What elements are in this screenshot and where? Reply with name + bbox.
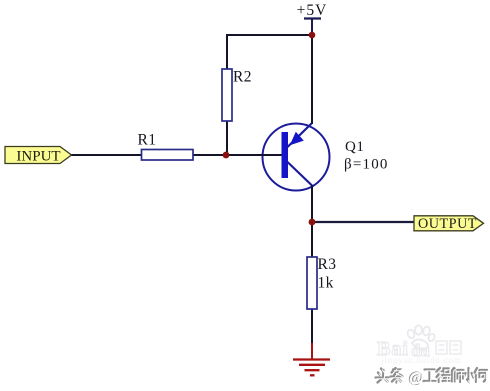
wire R1 to base node <box>193 154 226 156</box>
svg-text:1k: 1k <box>318 275 334 292</box>
resistor R3 <box>307 257 317 309</box>
wire collector <box>311 35 313 124</box>
char shi <box>453 369 465 383</box>
wire R3 bottom leg <box>311 309 313 345</box>
char he <box>476 369 489 383</box>
watermark baidu text <box>377 338 430 360</box>
resistor R2 <box>222 69 232 121</box>
svg-text:jingyan.baidu.com: jingyan.baidu.com <box>380 355 462 365</box>
wire base node to transistor base <box>226 154 282 156</box>
watermark toutiao text (hand-drawn CJK strokes) <box>376 368 488 383</box>
svg-text:OUTPUT: OUTPUT <box>418 216 477 232</box>
watermark jingyan characters <box>436 341 461 354</box>
char xiao <box>465 369 475 382</box>
junction output node <box>309 219 316 226</box>
transistor Q1 arrow <box>290 132 304 145</box>
char tiao <box>392 369 404 384</box>
transistor Q1 collector stroke <box>288 124 312 148</box>
ground symbol bars <box>293 360 330 376</box>
char he <box>475 368 488 382</box>
svg-text:Q1: Q1 <box>345 139 364 155</box>
wire base inside circle <box>262 154 282 156</box>
svg-text:β=100: β=100 <box>344 157 389 173</box>
char cheng <box>437 369 451 383</box>
watermark baidu paw <box>406 325 435 350</box>
wire R2 top leg <box>226 34 228 69</box>
char tou <box>377 370 390 384</box>
wire R2 bottom leg <box>226 121 228 155</box>
wire emitter down to output node and R3 <box>311 185 313 257</box>
char gong <box>425 371 437 383</box>
wire top rail from R2 to collector node <box>226 34 312 36</box>
transistor Q1 body circle <box>263 124 330 191</box>
char cheng <box>436 368 450 382</box>
char tiao <box>391 368 403 383</box>
transistor Q1 emitter stroke <box>288 162 313 186</box>
wire +5V stem <box>311 19 313 36</box>
power bar symbol <box>304 17 321 19</box>
port OUTPUT <box>414 216 484 231</box>
svg-text:R1: R1 <box>138 132 157 149</box>
junction +5V node <box>309 32 316 39</box>
ground stem red <box>311 343 313 359</box>
char shi <box>452 368 464 382</box>
svg-text:R2: R2 <box>233 69 252 86</box>
wire output node to OUTPUT port <box>312 221 414 223</box>
svg-text:R3: R3 <box>318 256 337 273</box>
svg-text:+5V: +5V <box>297 2 328 19</box>
char tou <box>376 369 389 383</box>
wire from INPUT port to R1 <box>71 154 142 156</box>
watermark toutiao emboss highlight <box>377 369 489 384</box>
svg-text:@: @ <box>409 370 424 387</box>
resistor R1 <box>142 150 194 161</box>
char gong <box>424 370 436 382</box>
port INPUT <box>5 147 72 164</box>
svg-text:INPUT: INPUT <box>16 149 60 165</box>
transistor Q1 base bar <box>282 132 289 178</box>
junction base node <box>223 152 230 159</box>
char xiao <box>464 368 474 381</box>
